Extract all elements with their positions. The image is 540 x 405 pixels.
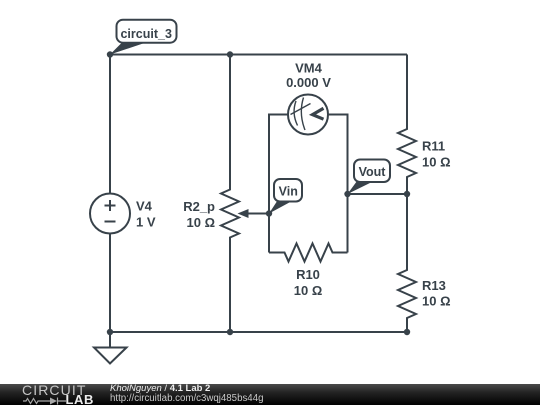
svg-text:10 Ω: 10 Ω: [187, 215, 216, 230]
svg-text:10 Ω: 10 Ω: [294, 283, 323, 298]
svg-text:circuit_3: circuit_3: [120, 27, 171, 41]
svg-text:V4: V4: [136, 199, 153, 214]
svg-text:0.000 V: 0.000 V: [286, 75, 331, 90]
svg-text:VM4: VM4: [295, 60, 323, 75]
svg-text:10 Ω: 10 Ω: [422, 294, 451, 309]
svg-text:R13: R13: [422, 278, 446, 293]
svg-text:Vout: Vout: [359, 165, 387, 179]
svg-text:10 Ω: 10 Ω: [422, 155, 451, 170]
svg-text:R10: R10: [296, 267, 320, 282]
svg-text:R11: R11: [422, 139, 445, 154]
svg-text:1 V: 1 V: [136, 215, 156, 230]
svg-text:R2_p: R2_p: [183, 199, 215, 214]
svg-text:Vin: Vin: [279, 184, 298, 198]
